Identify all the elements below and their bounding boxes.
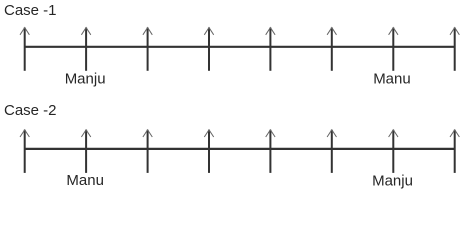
arrow 1 of line 2	[20, 130, 29, 173]
arrow 3 of line 2	[143, 130, 152, 173]
arrow 8 of line 2	[450, 130, 459, 173]
line 1 (case 1 baseline)	[25, 46, 455, 48]
arrow 7 of line 1	[389, 28, 398, 71]
svg-text:Manju: Manju	[65, 70, 106, 87]
arrow 4 of line 1	[204, 28, 213, 71]
line 2 (case 2 baseline)	[25, 148, 455, 150]
arrow 2 of line 2	[81, 130, 90, 173]
arrow 6 of line 1	[327, 28, 336, 71]
arrow 5 of line 1	[266, 28, 275, 71]
arrow 6 of line 2	[327, 130, 336, 173]
arrow 5 of line 2	[266, 130, 275, 173]
arrow 2 of line 1	[81, 28, 90, 71]
svg-text:Manu: Manu	[373, 71, 411, 88]
arrow 3 of line 1	[143, 28, 152, 71]
svg-text:Manju: Manju	[372, 172, 413, 189]
svg-text:Case -1: Case -1	[4, 2, 57, 19]
arrow 8 of line 1	[450, 28, 459, 71]
arrow 1 of line 1	[20, 28, 29, 71]
svg-text:Manu: Manu	[66, 172, 104, 189]
arrow 4 of line 2	[204, 130, 213, 173]
arrow 7 of line 2	[389, 130, 398, 173]
svg-text:Case -2: Case -2	[4, 102, 57, 119]
